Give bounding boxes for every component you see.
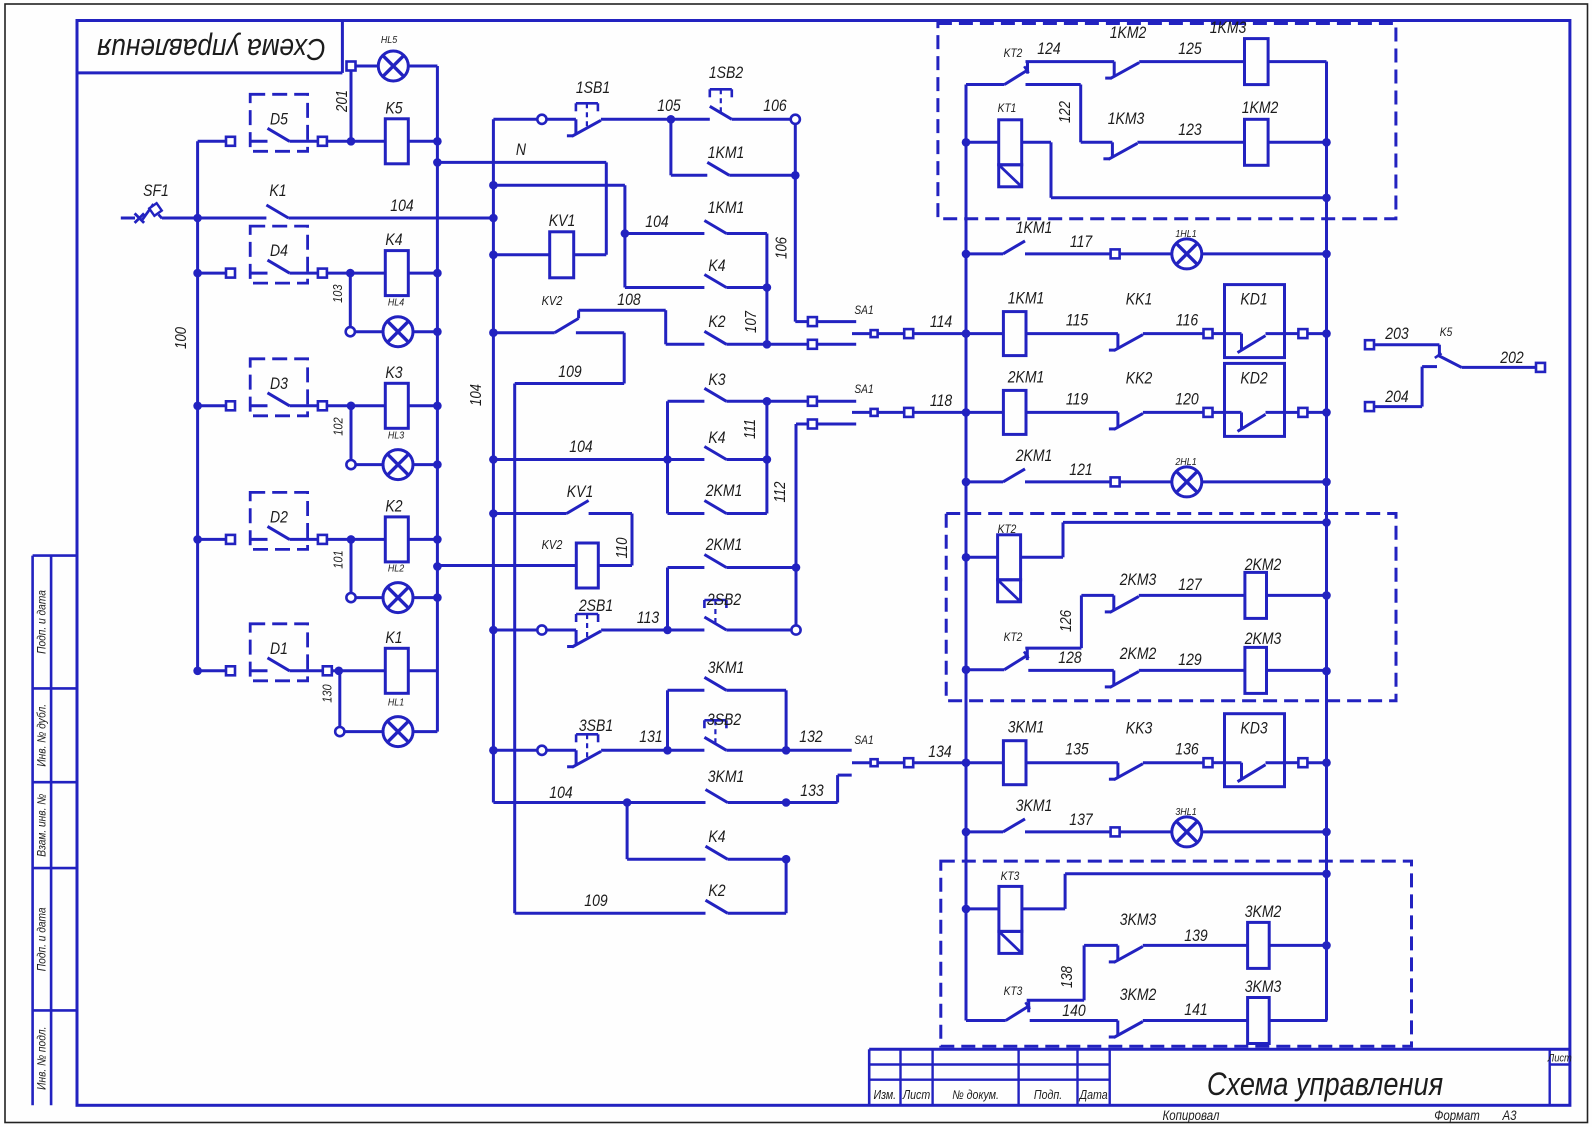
svg-text:132: 132 xyxy=(799,728,823,746)
svg-text:K1: K1 xyxy=(269,182,286,200)
svg-text:121: 121 xyxy=(1069,461,1092,479)
svg-text:104: 104 xyxy=(549,784,572,802)
svg-text:2KM1: 2KM1 xyxy=(1015,447,1053,465)
svg-text:SA1: SA1 xyxy=(854,383,873,396)
svg-text:204: 204 xyxy=(1384,388,1408,406)
svg-text:3KM1: 3KM1 xyxy=(1016,797,1053,815)
svg-text:D3: D3 xyxy=(270,375,288,393)
svg-text:3KM1: 3KM1 xyxy=(1008,719,1045,737)
svg-text:Копировал: Копировал xyxy=(1162,1108,1219,1123)
svg-text:HL1: HL1 xyxy=(388,697,404,709)
svg-text:SA1: SA1 xyxy=(854,304,873,317)
svg-text:Схема управления: Схема управления xyxy=(1207,1067,1443,1103)
svg-text:125: 125 xyxy=(1178,40,1202,58)
svg-text:K2: K2 xyxy=(708,882,726,900)
svg-text:133: 133 xyxy=(800,782,824,800)
svg-text:2KM2: 2KM2 xyxy=(1244,556,1282,574)
svg-text:2KM1: 2KM1 xyxy=(705,536,743,554)
svg-text:KT3: KT3 xyxy=(1004,985,1023,998)
svg-text:K2: K2 xyxy=(385,497,403,515)
svg-text:114: 114 xyxy=(930,313,952,331)
svg-text:KT3: KT3 xyxy=(1001,870,1020,883)
svg-text:1KM3: 1KM3 xyxy=(1210,19,1247,37)
svg-text:3KM3: 3KM3 xyxy=(1245,978,1282,996)
svg-text:Подп. и дата: Подп. и дата xyxy=(36,590,49,654)
svg-text:202: 202 xyxy=(1499,349,1524,367)
svg-text:103: 103 xyxy=(330,284,345,303)
svg-text:127: 127 xyxy=(1178,576,1202,594)
svg-text:110: 110 xyxy=(614,538,631,559)
svg-text:KV2: KV2 xyxy=(542,293,563,308)
svg-text:128: 128 xyxy=(1058,649,1082,667)
svg-text:K3: K3 xyxy=(708,371,726,389)
svg-text:100: 100 xyxy=(173,327,190,349)
svg-text:137: 137 xyxy=(1069,811,1093,829)
svg-text:104: 104 xyxy=(645,213,668,231)
svg-text:Взам. инв. №: Взам. инв. № xyxy=(36,794,49,857)
svg-text:K5: K5 xyxy=(1440,326,1453,339)
svg-text:1KM2: 1KM2 xyxy=(1242,99,1279,117)
svg-text:3KM1: 3KM1 xyxy=(708,768,745,786)
svg-text:201: 201 xyxy=(334,90,351,113)
svg-text:116: 116 xyxy=(1176,312,1199,330)
svg-text:1KM1: 1KM1 xyxy=(1008,290,1045,308)
svg-text:1KM1: 1KM1 xyxy=(708,144,745,162)
svg-text:2KM1: 2KM1 xyxy=(1007,368,1045,386)
svg-text:K4: K4 xyxy=(708,257,725,275)
svg-text:Инв. № дубл.: Инв. № дубл. xyxy=(36,704,49,767)
svg-text:А3: А3 xyxy=(1502,1108,1517,1123)
svg-text:135: 135 xyxy=(1065,741,1089,759)
svg-text:KD3: KD3 xyxy=(1240,720,1268,738)
svg-text:K4: K4 xyxy=(708,429,725,447)
svg-text:1HL1: 1HL1 xyxy=(1175,228,1196,240)
svg-text:KV1: KV1 xyxy=(549,212,575,230)
svg-text:HL5: HL5 xyxy=(381,34,398,46)
svg-text:KK3: KK3 xyxy=(1126,720,1153,738)
svg-text:1SB1: 1SB1 xyxy=(576,79,610,97)
svg-text:105: 105 xyxy=(657,97,681,115)
svg-text:2KM3: 2KM3 xyxy=(1119,571,1157,589)
svg-text:118: 118 xyxy=(930,392,953,410)
svg-text:126: 126 xyxy=(1058,610,1075,632)
svg-text:KK1: KK1 xyxy=(1126,291,1152,309)
svg-text:HL3: HL3 xyxy=(388,430,405,442)
svg-text:122: 122 xyxy=(1057,101,1074,123)
svg-text:D1: D1 xyxy=(270,640,288,658)
svg-text:KT2: KT2 xyxy=(1004,631,1023,644)
svg-text:3KM2: 3KM2 xyxy=(1245,903,1282,921)
svg-text:SF1: SF1 xyxy=(143,182,169,200)
svg-text:KV2: KV2 xyxy=(542,537,563,552)
svg-text:123: 123 xyxy=(1178,121,1202,139)
svg-text:KV1: KV1 xyxy=(567,483,593,501)
svg-text:KD2: KD2 xyxy=(1240,369,1268,387)
svg-text:N: N xyxy=(516,141,527,159)
svg-text:Лист: Лист xyxy=(1547,1053,1572,1065)
svg-text:109: 109 xyxy=(558,363,582,381)
svg-text:Формат: Формат xyxy=(1434,1108,1480,1123)
svg-text:129: 129 xyxy=(1178,651,1202,669)
svg-text:106: 106 xyxy=(763,97,787,115)
svg-text:113: 113 xyxy=(637,609,660,627)
svg-text:HL4: HL4 xyxy=(388,297,405,309)
svg-text:203: 203 xyxy=(1384,325,1409,343)
svg-text:138: 138 xyxy=(1059,966,1076,988)
svg-text:3KM3: 3KM3 xyxy=(1120,911,1157,929)
svg-text:D5: D5 xyxy=(270,110,288,128)
svg-text:Схема управления: Схема управления xyxy=(97,31,326,65)
svg-text:106: 106 xyxy=(774,237,791,259)
svg-text:Подп. и дата: Подп. и дата xyxy=(36,907,49,971)
svg-text:1SB2: 1SB2 xyxy=(709,64,744,82)
svg-text:104: 104 xyxy=(468,384,485,406)
svg-text:Изм.: Изм. xyxy=(873,1088,896,1102)
svg-text:112: 112 xyxy=(772,482,789,503)
svg-text:2KM3: 2KM3 xyxy=(1244,630,1282,648)
svg-text:№ докум.: № докум. xyxy=(952,1088,999,1102)
svg-text:115: 115 xyxy=(1066,312,1089,330)
svg-text:2SB1: 2SB1 xyxy=(578,597,613,615)
svg-text:K4: K4 xyxy=(385,231,402,249)
svg-text:134: 134 xyxy=(928,743,951,761)
svg-text:3SB1: 3SB1 xyxy=(579,717,613,735)
svg-text:104: 104 xyxy=(390,197,413,215)
svg-text:2HL1: 2HL1 xyxy=(1174,456,1196,468)
svg-text:111: 111 xyxy=(742,419,759,439)
svg-text:119: 119 xyxy=(1066,390,1089,408)
svg-text:3KM1: 3KM1 xyxy=(708,659,745,677)
svg-text:139: 139 xyxy=(1184,927,1208,945)
svg-text:141: 141 xyxy=(1184,1001,1207,1019)
svg-text:K4: K4 xyxy=(708,828,725,846)
svg-text:2KM1: 2KM1 xyxy=(705,482,743,500)
svg-text:101: 101 xyxy=(331,550,346,568)
svg-text:131: 131 xyxy=(639,728,662,746)
svg-text:2SB2: 2SB2 xyxy=(706,591,742,609)
svg-text:2KM2: 2KM2 xyxy=(1119,645,1157,663)
svg-text:K5: K5 xyxy=(385,99,403,117)
svg-text:3SB2: 3SB2 xyxy=(707,711,742,729)
svg-text:1KM3: 1KM3 xyxy=(1108,110,1145,128)
svg-text:3HL1: 3HL1 xyxy=(1175,806,1196,818)
svg-text:HL2: HL2 xyxy=(388,563,405,575)
svg-text:Лист: Лист xyxy=(902,1088,931,1102)
svg-text:140: 140 xyxy=(1062,1002,1086,1020)
svg-text:D4: D4 xyxy=(270,242,288,260)
svg-text:Инв. № подл.: Инв. № подл. xyxy=(36,1027,49,1090)
svg-text:1KM2: 1KM2 xyxy=(1110,24,1147,42)
svg-text:KT2: KT2 xyxy=(998,523,1017,536)
svg-text:Подп.: Подп. xyxy=(1034,1088,1062,1102)
svg-text:124: 124 xyxy=(1037,40,1060,58)
svg-text:SA1: SA1 xyxy=(854,734,873,747)
svg-text:KT1: KT1 xyxy=(998,102,1017,115)
svg-text:KT2: KT2 xyxy=(1004,47,1023,60)
svg-text:K1: K1 xyxy=(385,629,402,647)
svg-text:108: 108 xyxy=(617,291,641,309)
svg-text:130: 130 xyxy=(319,684,334,703)
svg-text:1KM1: 1KM1 xyxy=(708,199,745,217)
svg-text:3KM2: 3KM2 xyxy=(1120,986,1157,1004)
svg-text:1KM1: 1KM1 xyxy=(1016,219,1053,237)
svg-text:KK2: KK2 xyxy=(1126,369,1153,387)
svg-text:117: 117 xyxy=(1070,233,1093,251)
svg-text:D2: D2 xyxy=(270,508,288,526)
svg-text:K3: K3 xyxy=(385,364,403,382)
svg-text:Дата: Дата xyxy=(1078,1088,1108,1102)
svg-text:107: 107 xyxy=(743,310,760,333)
svg-text:136: 136 xyxy=(1175,741,1199,759)
svg-text:109: 109 xyxy=(584,892,608,910)
svg-text:102: 102 xyxy=(331,417,346,436)
svg-text:104: 104 xyxy=(569,438,592,456)
svg-text:KD1: KD1 xyxy=(1240,291,1267,309)
svg-text:120: 120 xyxy=(1175,390,1199,408)
svg-text:K2: K2 xyxy=(708,313,726,331)
